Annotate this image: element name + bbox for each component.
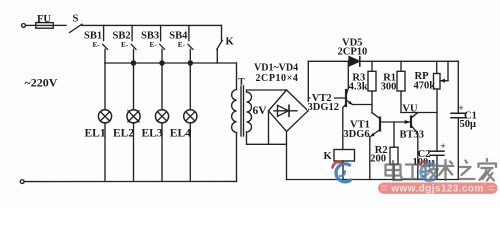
svg-text:EL2: EL2 [113, 128, 134, 140]
wire bus to transformer [236, 63, 238, 90]
svg-text:+: + [441, 141, 446, 151]
glyph 术 [438, 160, 454, 180]
svg-text:T: T [238, 78, 245, 88]
lamp EL4 [184, 63, 197, 181]
svg-text:3DG12: 3DG12 [308, 102, 340, 113]
lamp EL3 [155, 63, 168, 181]
node SB3-bus [160, 61, 164, 65]
transformer T primary winding [232, 90, 237, 133]
svg-text:2CP10: 2CP10 [338, 47, 368, 58]
wire bus (button output bus) [105, 62, 237, 64]
svg-text:BT33: BT33 [400, 130, 425, 141]
wire secondary bottom to bridge [247, 132, 287, 144]
transistor VT2 [308, 61, 372, 106]
svg-text:4.3k: 4.3k [349, 82, 368, 93]
resistor R1 [397, 61, 405, 112]
diode VD5 [349, 57, 360, 66]
terminal L2 (bottom left input) [20, 180, 24, 184]
terminal L1 (top left input) [22, 24, 26, 28]
svg-text:EL4: EL4 [170, 128, 191, 140]
watermark text 电工技术之家 (hand drawn glyphs) [386, 159, 497, 181]
switch SB2 [131, 25, 136, 63]
watermark logo 1 [333, 162, 351, 182]
transformer T secondary winding [247, 92, 252, 132]
transistor VT1 [370, 113, 411, 180]
svg-text:470k: 470k [414, 80, 436, 91]
relay coil K [334, 150, 355, 180]
svg-text:E-: E- [121, 41, 129, 49]
watermark logo 2 (over char area) [418, 162, 435, 181]
capacitor C1 [451, 61, 466, 179]
svg-text:K: K [226, 37, 235, 48]
wire secondary top to bridge [247, 90, 287, 92]
switch SB4 [188, 25, 193, 63]
banner www.dgjs123.com [378, 183, 498, 195]
svg-text:K: K [324, 151, 333, 162]
node SB2-bus [131, 61, 135, 65]
bridge rectifier VD1-VD4 diamond [269, 90, 309, 132]
label 3DG12 [307, 102, 342, 110]
svg-text:E-: E- [178, 41, 186, 49]
svg-text:E-: E- [93, 41, 101, 49]
svg-text:+: + [459, 103, 464, 113]
wire bridge bottom corner to bottom rail [286, 132, 288, 180]
wire top bus [82, 24, 222, 26]
wire [26, 24, 36, 26]
svg-text:200: 200 [370, 154, 386, 165]
glyph 之 [460, 161, 475, 180]
svg-text:EL1: EL1 [85, 128, 106, 140]
potentiometer RP [434, 61, 449, 151]
svg-text:3DG6: 3DG6 [343, 129, 369, 140]
svg-text:E-: E- [150, 41, 158, 49]
capacitor C2 [430, 151, 444, 179]
svg-text:300: 300 [381, 82, 397, 93]
wire bridge left corner down [268, 111, 270, 145]
lamp EL2 [127, 63, 140, 181]
svg-text:50μ: 50μ [460, 119, 477, 130]
wire VT2 to relay coil [343, 105, 346, 150]
wire primary to AC bottom [236, 133, 238, 182]
label VT2 [311, 93, 335, 103]
svg-text:EL3: EL3 [142, 128, 163, 140]
wire DC top rail [308, 60, 458, 62]
transformer core [240, 86, 242, 136]
resistor R3 [368, 61, 376, 112]
lamp EL1 [98, 63, 111, 181]
svg-text:2CP10×4: 2CP10×4 [256, 73, 299, 84]
wire bridge right corner to top rail [307, 61, 309, 111]
svg-text:FU: FU [37, 14, 51, 25]
switch SB3 [160, 25, 165, 63]
svg-text:6V: 6V [253, 105, 268, 117]
resistor R2 [390, 122, 398, 180]
wire node line (R1/VU-b2/RP/C2) [401, 112, 437, 114]
glyph 技 [422, 161, 439, 180]
switch S [70, 24, 83, 32]
relay contact K (parallel with buttons) [217, 25, 223, 63]
glyph 电 [386, 161, 402, 180]
svg-text:VU: VU [402, 104, 418, 115]
wire DC bottom rail [287, 179, 459, 181]
glyph 工 [404, 165, 421, 180]
fuse FU [36, 23, 53, 29]
switch SB1 [103, 25, 108, 63]
svg-text:www.dgjs123.com: www.dgjs123.com [390, 184, 483, 195]
unijunction transistor VU BT33 [405, 113, 418, 180]
glyph 家 [479, 159, 497, 181]
wire AC bottom [24, 180, 236, 182]
bridge inner diode [274, 105, 297, 116]
svg-text:S: S [73, 14, 79, 25]
wire [53, 24, 66, 26]
node SB4-bus [188, 61, 192, 65]
svg-text:~220V: ~220V [25, 76, 58, 90]
